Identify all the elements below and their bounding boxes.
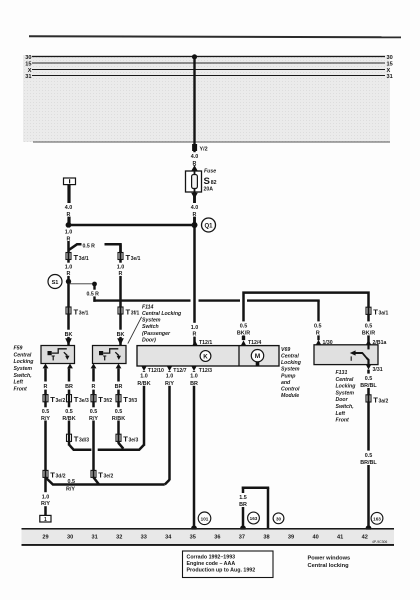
svg-text:System: System: [142, 318, 161, 324]
svg-text:3a/2: 3a/2: [379, 398, 389, 404]
svg-text:T12/4: T12/4: [248, 340, 261, 346]
svg-text:BR/BL: BR/BL: [360, 383, 377, 389]
svg-text:82: 82: [211, 180, 217, 186]
splice node S1: [48, 275, 62, 289]
svg-text:BK/R: BK/R: [362, 330, 375, 336]
svg-text:R/BK: R/BK: [112, 416, 125, 422]
svg-text:R/Y: R/Y: [41, 501, 50, 507]
svg-text:F114: F114: [142, 304, 154, 310]
svg-text:Central: Central: [336, 377, 354, 383]
svg-text:33: 33: [141, 534, 147, 540]
pin 3/31: [366, 365, 383, 373]
svg-text:0.5 R: 0.5 R: [87, 291, 100, 297]
svg-text:R: R: [193, 212, 197, 218]
svg-text:Front: Front: [336, 418, 350, 424]
connector T3e/2: [43, 395, 65, 405]
plus connection 30: [273, 513, 284, 524]
pin T12/4: [241, 340, 261, 346]
connector T3f/2: [91, 395, 112, 405]
svg-text:BR: BR: [190, 381, 198, 387]
svg-text:3e/3: 3e/3: [129, 438, 139, 444]
svg-text:Fuse: Fuse: [204, 169, 216, 175]
svg-text:Production up to Aug. 1992: Production up to Aug. 1992: [187, 568, 256, 574]
svg-text:36: 36: [214, 534, 220, 540]
svg-text:38: 38: [263, 534, 269, 540]
svg-text:163: 163: [250, 516, 258, 521]
ground designation 163 (track 37): [248, 512, 260, 524]
wire: fuse down to pump T12/1, label 4.0 R: [189, 192, 200, 345]
svg-text:R/BK: R/BK: [137, 381, 150, 387]
svg-text:163: 163: [373, 516, 381, 521]
terminal arrow into F114 switch: [117, 338, 124, 345]
wire: F59 BR output, label BR: [65, 368, 73, 445]
junction dot at track 37: [240, 525, 246, 531]
node Q1: [202, 218, 216, 232]
svg-text:Module: Module: [281, 393, 299, 399]
connector T3e/3 (lower): [116, 434, 138, 444]
svg-text:1.0: 1.0: [65, 230, 73, 236]
svg-text:31: 31: [91, 534, 97, 540]
svg-text:0.5: 0.5: [314, 323, 322, 329]
svg-text:0.5: 0.5: [42, 409, 50, 415]
svg-text:S: S: [204, 176, 211, 187]
terminal arrow out of F59 (R): [43, 364, 49, 369]
svg-text:3e/2: 3e/2: [56, 398, 66, 404]
svg-text:3d/2: 3d/2: [56, 474, 66, 480]
svg-text:30: 30: [25, 55, 31, 61]
svg-text:4.0: 4.0: [191, 154, 199, 160]
pin T12/7: [167, 366, 187, 374]
svg-text:Switch: Switch: [142, 324, 159, 330]
wire label 1.0 R (to T12/1): [189, 323, 200, 338]
junction dot left column: [66, 222, 72, 228]
terminal strip tracks 29-42: [22, 528, 395, 546]
svg-text:3/31: 3/31: [373, 367, 383, 373]
bus bar 30: [25, 55, 392, 61]
switch F131 central locking system door switch left front: [314, 345, 378, 365]
wire label 0.5 R/Y (F114): [87, 407, 101, 422]
svg-text:31: 31: [25, 74, 31, 80]
svg-text:3e/1: 3e/1: [131, 256, 141, 262]
svg-text:and: and: [281, 380, 291, 386]
svg-text:Engine code – AAA: Engine code – AAA: [187, 561, 236, 567]
wire label 1.0 R below T3d/1: [63, 263, 74, 278]
svg-text:0.5: 0.5: [65, 409, 73, 415]
terminal arrow out of F114 (R): [91, 364, 97, 369]
svg-text:Door): Door): [142, 337, 156, 343]
svg-text:R: R: [44, 384, 48, 390]
svg-text:0.5: 0.5: [115, 409, 123, 415]
svg-text:R: R: [67, 271, 71, 277]
svg-text:4.0: 4.0: [65, 205, 73, 211]
svg-text:101: 101: [201, 516, 209, 521]
svg-text:(Passenger: (Passenger: [142, 331, 171, 337]
caption box: [183, 551, 274, 578]
terminal arrow out of F114 (BR): [116, 364, 122, 369]
svg-text:1.0: 1.0: [65, 265, 73, 271]
switch F59 central locking system switch left front: [41, 346, 75, 364]
wire label 0.5 R/Y: [39, 407, 53, 422]
svg-text:T12/1: T12/1: [199, 340, 212, 346]
svg-text:Switch,: Switch,: [14, 373, 32, 379]
pin 1/30: [316, 340, 333, 346]
fuse S82 20A: [186, 165, 217, 198]
svg-text:1.0: 1.0: [140, 374, 148, 380]
svg-text:X: X: [387, 68, 391, 74]
svg-text:R/BK: R/BK: [62, 416, 75, 422]
svg-text:3d/1: 3d/1: [79, 256, 89, 262]
svg-text:BK: BK: [117, 332, 125, 338]
svg-text:1/30: 1/30: [323, 340, 333, 346]
svg-text:BK/R: BK/R: [237, 330, 250, 336]
wire: Y/2 to fuse, label 4.0 R: [189, 151, 200, 167]
svg-text:F131: F131: [336, 370, 348, 376]
wire: T12/3 to track 35, label 1.0 BR: [187, 371, 201, 528]
wire: column B down to F114 switch: [119, 244, 122, 346]
bus bar 31: [25, 74, 392, 80]
junction on bus 30: [192, 54, 197, 59]
pin 2/B1a: [366, 340, 387, 346]
svg-text:3e/2: 3e/2: [104, 474, 114, 480]
svg-text:Left: Left: [14, 380, 24, 386]
connector T3d/2: [43, 470, 66, 479]
svg-text:1.0: 1.0: [42, 494, 50, 500]
bus bar X: [28, 68, 391, 74]
svg-text:0.5: 0.5: [365, 453, 373, 459]
svg-text:3e/3: 3e/3: [79, 398, 89, 404]
wire: T3d/2 to ground, label 1.0 R/Y: [41, 477, 50, 515]
wire label BK (column B): [115, 330, 126, 339]
wire: F114 R output, label R: [92, 368, 96, 470]
connector T3e/2 (lower): [91, 470, 113, 479]
svg-text:1.0: 1.0: [191, 325, 199, 331]
svg-text:Pump: Pump: [281, 373, 295, 379]
svg-text:Central locking: Central locking: [308, 563, 350, 569]
wire label BK (left column): [63, 330, 74, 339]
wire: F131 3/31 down, label 0.5 BR/BL: [360, 370, 378, 395]
svg-text:3f/2: 3f/2: [104, 398, 113, 404]
F131 component label: [336, 370, 357, 424]
svg-text:BR: BR: [239, 502, 247, 508]
svg-text:Left: Left: [336, 411, 346, 417]
svg-text:0.5 R: 0.5 R: [83, 243, 96, 249]
pin T12/1: [192, 340, 212, 346]
pump V69 central locking system pump and control module: [137, 346, 279, 366]
svg-text:X: X: [28, 68, 32, 74]
svg-text:Locking: Locking: [14, 359, 35, 365]
svg-text:3a/1: 3a/1: [379, 311, 389, 317]
svg-text:30: 30: [67, 534, 73, 540]
svg-text:Locking: Locking: [336, 384, 357, 390]
svg-text:15: 15: [25, 62, 31, 68]
node: take-off dot: [92, 282, 97, 287]
connector T3f/3: [116, 395, 137, 405]
wire: T12/10 drop, label 1.0 R/BK: [137, 371, 152, 446]
svg-text:3f/3: 3f/3: [129, 398, 138, 404]
track numbers: [42, 534, 367, 540]
V69 component label: [281, 347, 302, 399]
svg-text:42: 42: [362, 534, 368, 540]
svg-text:BR/BL: BR/BL: [360, 460, 377, 466]
svg-text:BR: BR: [115, 384, 123, 390]
svg-text:Central Locking: Central Locking: [142, 311, 182, 317]
junction node at fuse output: [192, 222, 198, 228]
connector T3a/1: [366, 307, 388, 317]
svg-text:Y/2: Y/2: [200, 147, 208, 153]
svg-text:4.0: 4.0: [191, 205, 199, 211]
svg-text:Control: Control: [281, 387, 300, 393]
bus bar 15: [25, 62, 392, 68]
connector T3d/1: [66, 253, 89, 262]
wire: 0.5 R drop with label: [87, 284, 100, 302]
pin T12/10: [141, 366, 164, 374]
wire: cross link to fuse output: [69, 224, 195, 227]
svg-text:15: 15: [387, 62, 393, 68]
wire label 0.5 R/BK: [61, 407, 77, 422]
wire: R/BK run joining pump T12/10: [69, 443, 144, 450]
svg-text:34: 34: [165, 534, 172, 540]
svg-text:1: 1: [44, 517, 47, 523]
svg-text:Corrado 1992–1993: Corrado 1992–1993: [187, 554, 236, 560]
junction dot on left column at S1: [66, 279, 71, 284]
sheet title: [308, 555, 351, 569]
svg-text:S1: S1: [52, 280, 59, 286]
connector Y/2: [192, 144, 207, 153]
svg-text:0.5: 0.5: [365, 323, 373, 329]
connector T3e/3: [67, 395, 89, 405]
svg-text:V69: V69: [281, 347, 290, 353]
wire: thin link to 0.5 R take-off: [69, 283, 94, 285]
svg-text:30: 30: [276, 516, 282, 521]
connector T3e/1 (column B): [118, 253, 141, 262]
svg-text:4P-9C306: 4P-9C306: [372, 540, 387, 544]
wire: T12/7 drop, label 1.0 R/Y: [163, 371, 177, 485]
wire: 0.5 R/Y ground run, label: [46, 477, 165, 492]
svg-text:40: 40: [312, 534, 318, 540]
connector T3a/2: [366, 395, 388, 405]
svg-text:System: System: [281, 367, 300, 373]
svg-text:R: R: [67, 212, 71, 218]
svg-text:1.0: 1.0: [117, 265, 125, 271]
wire: F114 BR output, label BR: [115, 368, 123, 443]
ground designation 101: [198, 512, 211, 525]
wire label 0.5 R/BK (F114): [111, 407, 127, 422]
ground designation 163 (track 42): [371, 512, 383, 524]
svg-text:Q1: Q1: [204, 223, 213, 229]
svg-text:R: R: [92, 384, 96, 390]
switch F114 central locking system switch passenger door: [93, 346, 127, 364]
svg-text:30: 30: [387, 55, 393, 61]
junction dot at track 35: [191, 525, 197, 531]
pin T12/3: [191, 366, 212, 374]
connector T3f/1: [118, 307, 140, 316]
svg-text:R/Y: R/Y: [66, 487, 75, 493]
svg-text:Power windows: Power windows: [308, 555, 351, 561]
wire: supply tap down left column, label 4.0 R: [63, 185, 74, 347]
svg-text:29: 29: [42, 534, 48, 540]
svg-text:0.5: 0.5: [90, 409, 98, 415]
svg-text:39: 39: [288, 534, 294, 540]
svg-text:0.5: 0.5: [240, 323, 248, 329]
svg-text:37: 37: [239, 534, 245, 540]
svg-text:System: System: [336, 390, 355, 396]
terminal arrow out of F59 (BR): [67, 364, 73, 369]
F114 component label: [128, 304, 182, 343]
svg-text:2/B1a: 2/B1a: [373, 340, 387, 346]
svg-text:3e/1: 3e/1: [79, 310, 89, 316]
wire: BK/R link T12/4 to F131 2/B1a: [235, 293, 369, 341]
junction dot at track 42: [366, 525, 372, 531]
svg-text:System: System: [14, 366, 33, 372]
svg-text:F59: F59: [14, 346, 23, 352]
wire label 1.0 R (column B): [115, 263, 126, 278]
svg-text:Door: Door: [336, 397, 349, 403]
svg-text:K: K: [203, 353, 208, 360]
svg-text:BR: BR: [65, 384, 73, 390]
svg-text:Central: Central: [14, 352, 32, 358]
ground point 1: [40, 515, 51, 522]
svg-text:R/Y: R/Y: [89, 416, 98, 422]
connector T3d/3: [67, 434, 90, 444]
svg-text:R: R: [316, 330, 320, 336]
svg-text:1.0: 1.0: [166, 374, 174, 380]
svg-text:R: R: [67, 236, 71, 242]
svg-text:41: 41: [337, 534, 343, 540]
svg-text:3f/1: 3f/1: [131, 310, 140, 316]
svg-text:1.0: 1.0: [190, 374, 198, 380]
svg-text:35: 35: [190, 534, 196, 540]
terminal arrow into F59 switch: [65, 338, 72, 345]
svg-text:M: M: [255, 353, 261, 360]
wire label 1.0 R: [63, 228, 74, 243]
wire: T3a/1 to F131, label 0.5 BK/R: [360, 314, 377, 344]
wire: T3a/2 to track 42, label 0.5 BR/BL: [360, 402, 378, 528]
svg-text:BK: BK: [65, 332, 73, 338]
wire label 0.5 R (to 1/30): [313, 321, 325, 336]
svg-text:Central: Central: [281, 354, 299, 360]
svg-text:31: 31: [387, 74, 393, 80]
svg-text:1.5: 1.5: [239, 495, 247, 501]
wire: F59 R output, label R: [44, 368, 48, 470]
svg-text:Locking: Locking: [281, 360, 302, 366]
svg-text:Switch,: Switch,: [336, 404, 354, 410]
svg-text:R: R: [193, 332, 197, 338]
connector T3e/1 (left column): [66, 307, 89, 316]
svg-text:R/Y: R/Y: [165, 381, 174, 387]
wire: 0.5 R branch to column B: [69, 241, 121, 253]
svg-text:0.5: 0.5: [68, 479, 76, 485]
F59 component label: [14, 346, 35, 393]
wire: bus 30 down to connector Y/2: [193, 57, 195, 146]
svg-text:R: R: [119, 271, 123, 277]
svg-text:R/Y: R/Y: [41, 416, 50, 422]
svg-text:Front: Front: [14, 386, 28, 392]
svg-text:0.5: 0.5: [365, 376, 373, 382]
wire: 1.5 BR jumper tracks 37-38: [239, 487, 269, 529]
svg-text:3d/3: 3d/3: [79, 438, 89, 444]
terminal 30 supply tap (left): [64, 178, 76, 185]
svg-text:20A: 20A: [204, 187, 214, 193]
wire: long 0.5 R run to F131 terminal 1/30: [93, 301, 319, 341]
svg-text:32: 32: [116, 534, 122, 540]
